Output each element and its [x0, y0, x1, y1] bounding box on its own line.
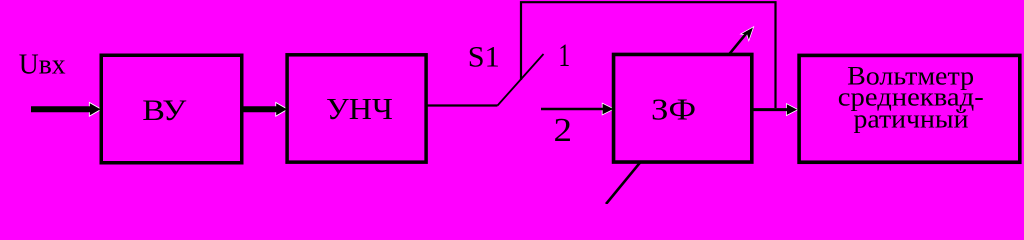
svg-text:Uвх: Uвх: [19, 48, 66, 80]
svg-text:S1: S1: [468, 41, 500, 73]
wire: ZF output arrow to voltmeter: [753, 104, 797, 115]
svg-text:УНЧ: УНЧ: [326, 92, 393, 126]
svg-text:ЗФ: ЗФ: [651, 92, 696, 126]
wire: UNCH output to switch pole: [426, 104, 498, 106]
wire: feedback from switch contact 1 over the top to voltmeter input: [521, 2, 776, 108]
wire: switch contact 2 arrow into ZF: [541, 104, 613, 114]
wire: thick arrow VU to UNCH: [243, 103, 287, 115]
block ZF: [614, 54, 752, 162]
block voltmeter: [799, 55, 1020, 162]
svg-text:1: 1: [558, 38, 570, 74]
svg-text:2: 2: [554, 112, 573, 149]
block UNCH: [287, 55, 426, 162]
svg-text:ВУ: ВУ: [142, 94, 187, 127]
block VU: [101, 55, 242, 163]
svg-text:ратичный: ратичный: [854, 105, 969, 134]
node input arrow Uvx: [31, 103, 100, 115]
tuning arrow of ZF (drawn under the box, passes behind it): [606, 28, 753, 205]
switch S1 lever: [498, 54, 544, 106]
